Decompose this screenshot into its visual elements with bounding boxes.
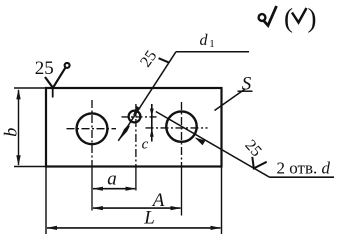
centerline horizontal right hole + c lower extension xyxy=(146,127,208,129)
plate outline xyxy=(46,88,222,167)
leader line 2 otv d xyxy=(156,112,270,178)
roughness symbol circle end xyxy=(65,63,70,68)
hole left (d) xyxy=(77,113,108,144)
dimension c upper arrow xyxy=(151,104,153,117)
centerline vertical right hole / extension for A xyxy=(181,102,183,166)
dimension line L xyxy=(47,227,221,229)
roughness symbol stem below edge xyxy=(52,89,54,98)
leader arrow at right hole xyxy=(195,137,206,145)
svg-text:(: ( xyxy=(284,3,293,33)
leader S xyxy=(215,89,246,111)
extension line right edge down for L xyxy=(221,167,223,235)
centerline horizontal left hole xyxy=(67,128,117,130)
svg-text:d: d xyxy=(200,32,209,49)
corner check inside parens xyxy=(292,8,307,23)
dimension line b xyxy=(18,90,20,165)
leader arrow tail below small hole xyxy=(118,125,130,141)
centerline horizontal small hole / c upper extension xyxy=(122,116,159,118)
hole small (d1) xyxy=(129,111,141,123)
dimension line a xyxy=(93,188,135,190)
svg-text:25: 25 xyxy=(241,137,264,160)
svg-text:2 отв. d: 2 отв. d xyxy=(277,158,331,177)
leader line d1 xyxy=(118,52,176,141)
extension line bottom-left for b xyxy=(14,166,46,168)
svg-text:L: L xyxy=(143,208,155,229)
dimension line A xyxy=(93,207,181,209)
svg-text:): ) xyxy=(308,3,317,33)
svg-text:S: S xyxy=(242,73,252,94)
underline S xyxy=(238,90,253,92)
leader shelf d1 xyxy=(176,51,249,53)
svg-text:1: 1 xyxy=(209,38,215,50)
svg-text:a: a xyxy=(107,168,117,189)
centerline vertical small hole / extension for a xyxy=(135,104,137,166)
svg-text:25: 25 xyxy=(35,58,54,79)
roughness symbol on top edge (25) xyxy=(45,68,65,88)
svg-text:b: b xyxy=(0,128,20,137)
extension line top-left for b xyxy=(14,87,46,89)
dimension c lower arrow xyxy=(151,115,153,142)
leader arrow into small hole xyxy=(133,106,141,116)
svg-text:c: c xyxy=(142,136,149,152)
corner roughness check with circle xyxy=(264,6,277,26)
leader shelf 2 otv d xyxy=(270,176,335,178)
centerline vertical left hole / extension for a,A xyxy=(91,100,93,166)
roughness tick on 2otv leader xyxy=(252,157,266,168)
svg-text:25: 25 xyxy=(137,48,160,71)
hole right (d) xyxy=(166,111,196,141)
extension line left edge down for L xyxy=(45,167,47,235)
roughness tick on d1 leader xyxy=(159,58,170,63)
